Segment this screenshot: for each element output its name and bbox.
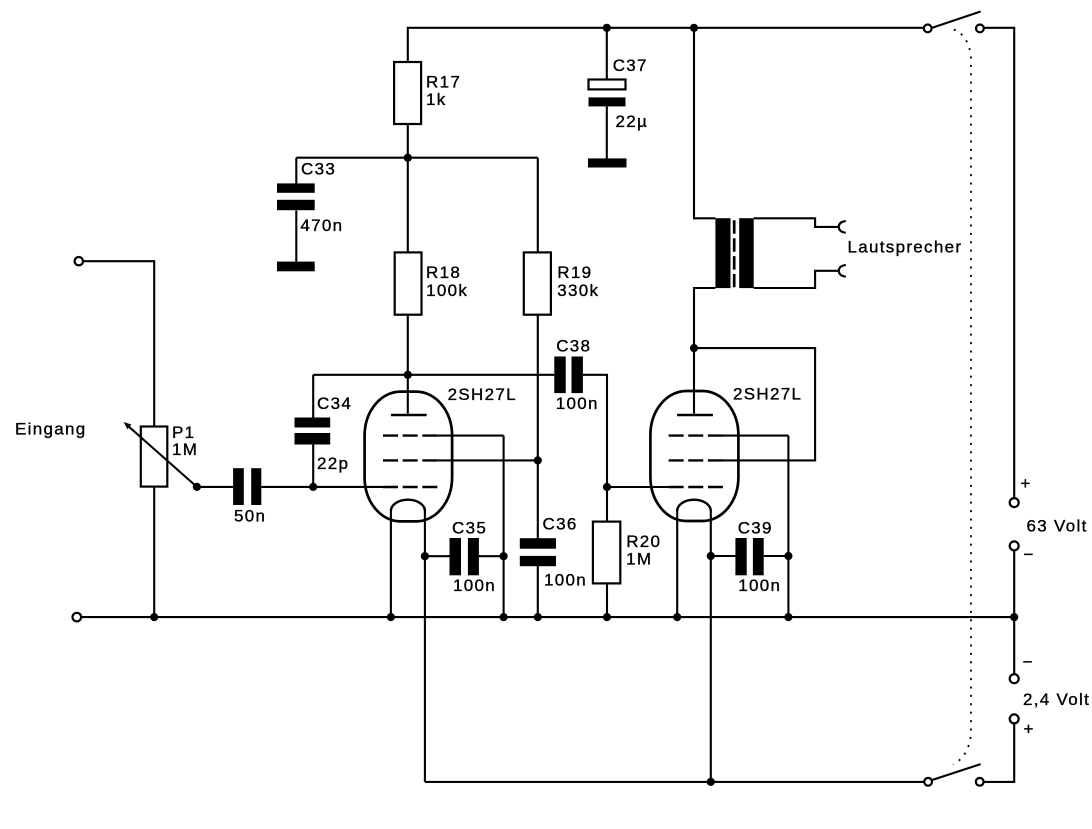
svg-text:C35: C35 — [452, 519, 487, 538]
tube U2 anode plate — [677, 414, 713, 416]
battery terminal - 2.4V — [1010, 674, 1019, 683]
svg-text:R17: R17 — [426, 72, 461, 91]
wire: heater line to bottom switch — [425, 781, 928, 783]
wire: anode 1 lead — [407, 375, 409, 414]
tube U2 middle grid dashes — [669, 459, 723, 461]
junction dot screen 1 — [534, 456, 542, 464]
wire: C33 top lead — [295, 158, 297, 184]
junction dot rail P1 — [150, 613, 158, 621]
svg-text:C33: C33 — [301, 160, 336, 179]
wire: node A horizontal (R17/C33/R19) — [296, 157, 538, 159]
wire: tube 1 screen row extension down to rail — [437, 436, 503, 617]
svg-text:−: − — [1024, 545, 1035, 564]
wire: R19 bottom lead through screen node to C36 — [537, 315, 539, 539]
wire: C39 right lead — [764, 555, 789, 557]
wire: C36 bottom lead — [537, 566, 539, 617]
transformer T1 secondary winding — [739, 218, 754, 288]
wire: C33 lead to ground bar — [295, 211, 297, 262]
wire: tube 2 cathode right leg — [710, 511, 712, 782]
capacitor 50n — [233, 468, 266, 526]
input terminal top circle — [75, 257, 83, 265]
svg-text:2SH27L: 2SH27L — [448, 385, 517, 404]
wire: tube 1 middle grid extension to R19 — [437, 459, 538, 461]
wire: transformer secondary top lead — [754, 218, 839, 227]
switch linkage dotted line — [953, 30, 971, 765]
capacitor C35 — [450, 519, 497, 595]
capacitor C33 — [277, 160, 343, 236]
junction dot transformer rail — [690, 24, 698, 32]
wire: tube 1 cathode left leg — [390, 511, 392, 617]
svg-text:R20: R20 — [626, 532, 661, 551]
input terminal bottom circle — [73, 613, 82, 622]
wire: tube 1 cathode right leg — [424, 511, 426, 782]
svg-text:100n: 100n — [544, 570, 587, 589]
junction dot C39 right — [784, 552, 792, 560]
tube U2 cathode arc — [677, 500, 711, 511]
tube U1 control grid dashes — [383, 486, 437, 488]
speaker connector top — [839, 221, 845, 232]
tube U1 anode plate — [391, 414, 427, 416]
wire: transformer secondary bottom lead — [754, 271, 839, 288]
ground bar (C33) — [277, 262, 315, 272]
resistor R17 — [394, 62, 461, 124]
switch S1b bottom pole — [924, 764, 983, 786]
tube U1 middle grid dashes — [383, 459, 437, 461]
wire: C38 right to grid 2 corner — [583, 375, 607, 487]
ground bar (C37) — [588, 158, 627, 167]
wire: P1 bottom lead — [153, 487, 155, 617]
svg-text:C37: C37 — [613, 56, 648, 75]
wire: ground rail — [77, 616, 1014, 618]
svg-text:−: − — [1023, 652, 1034, 671]
svg-text:470n: 470n — [300, 216, 343, 235]
wire: R17 bottom lead — [407, 124, 409, 158]
capacitor C34 — [295, 394, 353, 473]
wire: R20 top lead — [606, 487, 608, 522]
resistor R18 — [395, 252, 468, 314]
capacitor C36 — [520, 514, 587, 589]
wire: tube 2 screen row extension down to rail — [722, 436, 789, 617]
wire: C37 bottom lead — [606, 106, 608, 158]
wire: R20 bottom lead — [606, 583, 608, 617]
battery terminal + 63V — [1010, 498, 1019, 507]
svg-text:100k: 100k — [426, 281, 468, 300]
svg-text:C39: C39 — [738, 519, 773, 538]
resistor R20 — [593, 522, 661, 584]
junction dot C39 left — [707, 552, 715, 560]
wire: R18 top lead — [407, 158, 409, 253]
wire: anode 2 loop to middle grid — [694, 348, 815, 460]
svg-text:R19: R19 — [557, 263, 592, 282]
speaker connector bottom — [839, 265, 845, 276]
svg-text:+: + — [1020, 474, 1031, 493]
wire: grid 1 wire into tube 1 — [313, 486, 383, 488]
potentiometer P1 — [124, 422, 199, 487]
junction dot wiper — [193, 483, 201, 491]
wire: R18 bottom lead — [407, 315, 409, 375]
junction dot C35 left — [421, 552, 429, 560]
wire: battery mid section — [1013, 546, 1015, 679]
wire: anode 1 node horizontal to C38 — [313, 374, 554, 376]
tube U2 control grid dashes — [669, 486, 723, 488]
junction dot grid 2 — [603, 483, 611, 491]
svg-text:2,4 Volt: 2,4 Volt — [1023, 690, 1090, 709]
wire: C34 bottom lead — [312, 445, 314, 487]
svg-text:1M: 1M — [172, 440, 198, 459]
wire: C34 top lead — [312, 375, 314, 418]
wire: tube 2 cathode left leg — [676, 511, 678, 617]
junction dot anode 1 — [404, 371, 412, 379]
junction dot R17 bottom — [404, 154, 412, 162]
junction dot rail screen ext 2 — [784, 613, 792, 621]
svg-text:100n: 100n — [738, 576, 781, 595]
wire: C39 left lead — [711, 555, 736, 557]
junction dot rail C36 — [534, 613, 542, 621]
junction dot rail cathode 1 — [387, 613, 395, 621]
battery terminal + 2.4V — [1010, 714, 1019, 723]
tube U1 cathode arc — [391, 500, 425, 511]
wire: wiper to 50n — [197, 486, 233, 488]
tube U1 screen grid dashes — [383, 434, 437, 436]
svg-text:100n: 100n — [453, 576, 496, 595]
transformer T1 core — [733, 220, 736, 287]
wire: transformer primary bottom lead to anode node — [694, 288, 715, 348]
junction dot rail battery — [1010, 613, 1018, 621]
wire: rail after top switch down right side to + terminal — [980, 28, 1014, 503]
svg-text:C36: C36 — [543, 514, 578, 533]
capacitor C38 — [554, 337, 598, 414]
junction dot grid 1 — [309, 483, 317, 491]
junction dot rail screen ext 1 — [500, 613, 508, 621]
svg-text:22µ: 22µ — [616, 112, 649, 131]
wire: R19 top lead — [537, 158, 539, 253]
capacitor C37 electrolytic — [589, 56, 649, 131]
tube U1 2SH27L envelope — [365, 392, 453, 522]
svg-text:Lautsprecher: Lautsprecher — [848, 238, 963, 257]
svg-text:1k: 1k — [426, 90, 447, 109]
svg-text:63 Volt: 63 Volt — [1027, 516, 1088, 535]
svg-text:R18: R18 — [426, 263, 461, 282]
svg-text:C38: C38 — [556, 337, 591, 356]
wire: C37 top lead — [606, 28, 608, 80]
wire: 50n to grid node — [261, 486, 313, 488]
wire: anode 2 lead — [693, 348, 695, 414]
wire: transformer primary top lead — [694, 28, 715, 219]
svg-text:Eingang: Eingang — [15, 419, 87, 438]
tube U2 2SH27L envelope — [650, 391, 738, 521]
wire: top supply rail with R17 top lead — [408, 28, 928, 62]
junction dot anode 2 — [690, 344, 698, 352]
wire: C35 left lead — [425, 555, 450, 557]
tube U2 screen grid dashes — [669, 434, 723, 436]
switch S1a top pole — [924, 12, 984, 33]
battery terminal - 63V — [1010, 541, 1019, 550]
svg-text:330k: 330k — [557, 281, 599, 300]
capacitor C39 — [735, 519, 781, 595]
resistor R19 — [524, 252, 600, 314]
junction dot heater line — [707, 778, 715, 786]
wire: C35 right lead — [479, 555, 504, 557]
wire: input terminal to P1 top — [79, 261, 154, 426]
svg-text:22p: 22p — [317, 454, 349, 473]
svg-text:C34: C34 — [317, 394, 352, 413]
svg-text:2SH27L: 2SH27L — [733, 385, 802, 404]
junction dot C35 right — [500, 552, 508, 560]
wire: battery bottom to heater switch — [980, 719, 1015, 782]
svg-text:100n: 100n — [556, 394, 599, 413]
junction dot rail cathode 2 — [673, 613, 681, 621]
junction dot rail R20 — [603, 613, 611, 621]
svg-text:50n: 50n — [234, 507, 266, 526]
svg-text:1M: 1M — [626, 549, 652, 568]
junction dot C37 rail — [603, 24, 611, 32]
wire: grid 2 wire into tube 2 — [607, 486, 669, 488]
transformer T1 primary winding — [715, 218, 730, 288]
svg-text:+: + — [1024, 719, 1035, 738]
